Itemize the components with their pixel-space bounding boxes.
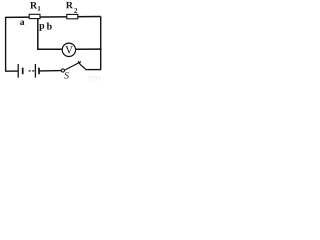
battery cell2 long plate [34,64,36,78]
label R1 subscript 1 [38,6,41,11]
battery dashed link [29,70,31,72]
rheostat tap wire from slider P [38,19,101,49]
wire left [5,17,7,71]
voltmeter V [62,43,75,56]
label p slider [39,24,44,31]
wire bottom: corner to battery [5,70,18,72]
label b [47,23,52,30]
wire right [100,16,102,69]
junction node dot [100,48,102,50]
resistor R1 box [29,14,40,18]
wire switch to bottom-right corner [85,69,101,71]
label S switch [64,72,68,78]
label R2 subscript 2 [74,8,77,13]
switch contact tick [78,61,86,69]
battery cell1 short plate [22,68,24,75]
switch S [61,61,86,72]
battery cell2 short plate [38,68,40,75]
battery B [18,64,39,78]
battery cell1 long plate [17,64,19,78]
voltmeter letter V [65,46,73,53]
label R2 letter R [66,2,73,8]
label R1 letter R [30,2,37,8]
watermark ghost text [89,76,93,81]
wire battery to switch [40,70,62,72]
switch hinge circle [61,69,64,72]
wire voltmeter to right vertical [76,48,101,50]
wire top [6,15,101,18]
switch blade [65,62,81,70]
label a [20,21,24,26]
resistor R2 box [67,14,78,18]
